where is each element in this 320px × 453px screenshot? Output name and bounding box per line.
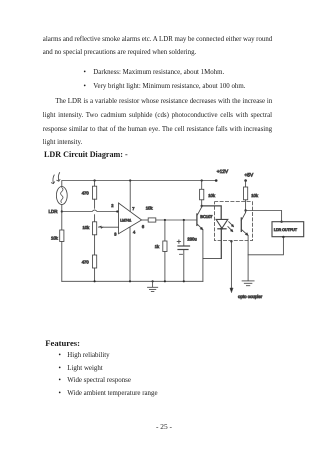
wire collector node to output box: [246, 211, 282, 222]
svg-text:470: 470: [82, 191, 90, 196]
svg-text:LDR: LDR: [49, 209, 59, 214]
resistor R8 10k (+5V pull-up): [244, 181, 248, 211]
wire top rail: [62, 181, 216, 187]
svg-text:4: 4: [133, 229, 136, 234]
capacitor C1 230u: [177, 220, 189, 281]
paragraph 1 line 2: [43, 49, 196, 57]
wire pin 4 to bottom rail: [129, 227, 131, 281]
svg-text:+5V: +5V: [245, 172, 254, 178]
LDR R1: [56, 187, 67, 205]
wire wiper to op-amp pin 3: [101, 226, 119, 228]
node bottom rail / cap: [183, 280, 185, 282]
resistor R7 1k: [163, 220, 167, 281]
node A (LDR divider): [61, 210, 63, 212]
bullet 1: [84, 69, 86, 77]
node bottom rail / divider: [94, 280, 96, 282]
feature bullet 3: [59, 377, 61, 385]
svg-text:10k: 10k: [208, 193, 216, 198]
node box top: [280, 221, 282, 223]
LDR OUTPUT box: [272, 222, 304, 237]
svg-text:10k: 10k: [251, 193, 259, 198]
wire bottom rail: [62, 280, 203, 282]
node annotation on opto box: [230, 240, 232, 242]
wire pin 7 to top rail: [129, 181, 131, 212]
node box bottom: [282, 236, 284, 238]
wire emitter down: [247, 235, 249, 280]
paragraph 2 line 3: [43, 126, 272, 134]
ground G1: [148, 281, 158, 291]
svg-text:1k: 1k: [155, 244, 160, 249]
wire pin 6 output: [142, 219, 149, 221]
node bottom rail / ground: [152, 280, 154, 282]
potentiometer VR1 10k: [93, 215, 104, 255]
node +5V terminal: [244, 179, 247, 182]
light arrows onto LDR: [51, 173, 60, 184]
node top rail / divider: [94, 179, 96, 181]
node top rail / pin7: [129, 179, 131, 181]
svg-text:10k: 10k: [146, 206, 154, 211]
svg-text:230u: 230u: [187, 237, 197, 242]
svg-text:+12V: +12V: [217, 169, 229, 175]
light arrows LED to phototransistor: [228, 222, 234, 232]
dashed opto-coupler box: [215, 202, 253, 241]
wire output node: [156, 219, 197, 221]
transistor Q1 BC107: [197, 206, 203, 230]
paragraph 2 line 4: [43, 139, 82, 147]
annotation arrow opto coupler: [230, 241, 233, 292]
wire node A to op-amp pin 2 (with hop over divider column): [62, 210, 119, 212]
wire box bottom to emitter/ground: [248, 237, 283, 255]
feature bullet 2: [59, 365, 61, 373]
svg-text:7: 7: [132, 206, 135, 211]
paragraph 2 line 2: [43, 112, 272, 120]
resistor R4 470 (bottom of divider): [93, 255, 97, 281]
svg-text:opto coupler: opto coupler: [238, 294, 263, 299]
node bottom rail / 1k: [164, 280, 166, 282]
svg-text:10k: 10k: [51, 235, 59, 240]
node top rail / R6 10k: [201, 179, 203, 181]
svg-text:470: 470: [82, 260, 90, 265]
svg-text:6: 6: [142, 224, 145, 229]
wire collector node to LED anode: [202, 206, 222, 219]
resistor R3 470 (top of divider): [93, 181, 97, 209]
feature bullet 4: [59, 390, 61, 398]
phototransistor Q2: [241, 211, 248, 236]
heading Features: [45, 339, 80, 347]
node +12V terminal: [215, 179, 218, 182]
ground G2: [242, 281, 254, 286]
wire emitter / LED cathode to bottom rail: [203, 230, 221, 281]
svg-text:LDR OUTPUT: LDR OUTPUT: [274, 228, 298, 232]
svg-text:3: 3: [114, 231, 117, 236]
svg-text:BC107: BC107: [200, 214, 213, 219]
resistor R6 10k (BC107 collector): [200, 181, 204, 206]
svg-text:2: 2: [111, 203, 114, 208]
paragraph 1 line 1: [43, 36, 272, 44]
node bottom rail / pin4: [129, 280, 131, 282]
resistor R5 10k (output): [148, 218, 156, 222]
node 1k: [164, 219, 166, 221]
svg-text:10k: 10k: [83, 225, 91, 230]
resistor R2 10k (below LDR): [60, 212, 64, 282]
node at pin 2: [116, 210, 118, 212]
node BC107 collector: [201, 205, 203, 207]
LED D1 (opto-coupler): [216, 219, 228, 258]
node phototransistor collector: [244, 209, 246, 211]
op-amp U1 LM741: [119, 203, 142, 234]
feature bullet 1: [59, 352, 61, 360]
node cap: [183, 219, 185, 221]
bullet 2: [84, 83, 86, 91]
wire LDR to node A: [61, 205, 63, 212]
heading LDR Circuit Diagram: [44, 151, 128, 159]
paragraph 2 line 1: [55, 98, 272, 106]
page number: [156, 423, 172, 431]
svg-text:LM741: LM741: [120, 218, 131, 222]
